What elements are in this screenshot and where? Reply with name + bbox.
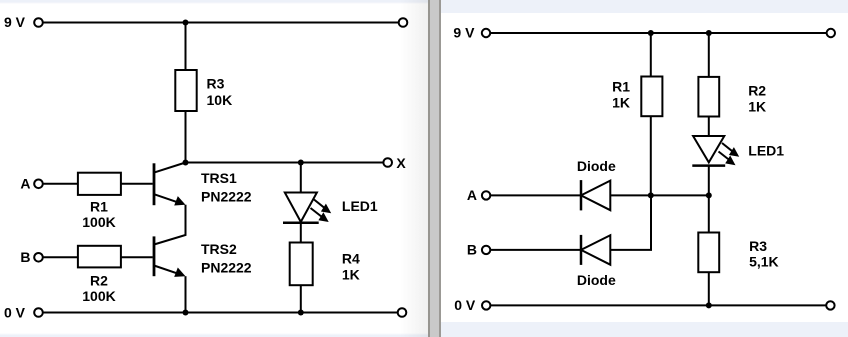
left page top blue strip — [0, 0, 428, 2]
svg-text:Diode: Diode — [577, 272, 616, 288]
svg-text:R3: R3 — [207, 75, 225, 91]
svg-text:R1: R1 — [90, 198, 108, 214]
0V rail right terminal — [398, 308, 407, 317]
resistor R2 body — [78, 246, 121, 268]
9V rail left terminal (right) — [482, 29, 490, 37]
wire R4 to 0V — [300, 285, 302, 312]
wire B to diode (right) — [490, 249, 581, 251]
svg-text:PN2222: PN2222 — [201, 189, 252, 205]
wire R3 bottom lead (right) — [708, 272, 710, 305]
9V rail left terminal — [34, 18, 43, 27]
diode B triangle — [581, 235, 610, 265]
svg-text:TRS2: TRS2 — [201, 241, 237, 257]
input B terminal (right) — [482, 246, 490, 254]
9V rail right terminal — [399, 18, 408, 27]
svg-text:LED1: LED1 — [748, 143, 784, 159]
junction dot collector node — [183, 160, 189, 166]
wire R2 to TRS2 base — [121, 256, 153, 258]
wire R3 bottom lead — [185, 111, 187, 163]
wire R2 to LED1 (right) — [708, 117, 710, 137]
wire LED1 cathode to A node (right) — [708, 166, 710, 196]
svg-text:1K: 1K — [342, 267, 360, 283]
LED LED1 cathode bar (right) — [692, 164, 725, 167]
wire diode B to vertical — [610, 195, 651, 250]
wire LED1 to R4 — [300, 223, 302, 243]
junction dot R4/0V — [298, 310, 304, 316]
svg-text:1K: 1K — [612, 95, 630, 111]
svg-text:R3: R3 — [749, 238, 767, 254]
svg-text:TRS1: TRS1 — [201, 170, 237, 186]
wire R1 bottom lead to A node — [650, 116, 652, 195]
svg-text:9 V: 9 V — [453, 25, 475, 41]
transistor TRS1 emitter stroke — [154, 194, 181, 203]
svg-text:0 V: 0 V — [4, 305, 26, 321]
LED LED1 light arrow 1 — [314, 200, 325, 209]
junction dot LED branch — [298, 160, 304, 166]
0V rail wire (right) — [490, 304, 826, 306]
0V rail left terminal (right) — [482, 301, 490, 309]
junction dot 9V/R3 — [183, 20, 189, 26]
wire A to R1 — [43, 183, 78, 185]
svg-text:LED1: LED1 — [342, 198, 378, 214]
diode A triangle — [581, 181, 610, 211]
svg-text:9 V: 9 V — [4, 14, 26, 30]
vertical scrollbar divider — [428, 0, 441, 337]
transistor TRS2 base bar — [153, 236, 156, 276]
svg-text:Diode: Diode — [577, 158, 616, 174]
wire diode A to node — [610, 194, 709, 196]
junction dot LED/R3 node (right) — [706, 192, 712, 198]
wire R3 top lead — [185, 23, 187, 71]
resistor R1 body (right) — [641, 77, 662, 117]
wire R2 top lead (right) — [708, 33, 710, 77]
svg-text:100K: 100K — [82, 214, 115, 230]
resistor R1 body — [78, 173, 121, 195]
wire A to diode (right) — [490, 194, 581, 196]
LED LED1 light arrow 2 (right) — [719, 152, 731, 161]
wire LED1 anode lead — [300, 163, 302, 193]
transistor TRS1 emitter arrowhead — [174, 196, 185, 205]
input B terminal — [34, 253, 43, 262]
transistor TRS1 collector stroke — [154, 163, 186, 173]
svg-text:1K: 1K — [748, 99, 766, 115]
LED LED1 light arrow 1 (right) — [722, 143, 733, 152]
junction dot TRS2 emitter/0V — [183, 310, 189, 316]
junction dot R3/0V (right) — [706, 302, 712, 308]
junction dot 9V/R2 (right) — [706, 30, 712, 36]
0V rail wire — [43, 312, 398, 314]
svg-text:A: A — [467, 187, 477, 203]
resistor R3 body (right) — [698, 233, 719, 273]
wire TRS2 emitter to 0V — [185, 276, 187, 312]
LED LED1 triangle — [285, 193, 317, 222]
LED LED1 triangle (right) — [693, 136, 724, 162]
svg-text:0 V: 0 V — [454, 297, 476, 313]
svg-text:10K: 10K — [207, 92, 233, 108]
wire R3 top lead (right) — [708, 195, 710, 232]
svg-text:100K: 100K — [82, 288, 115, 304]
svg-text:PN2222: PN2222 — [201, 259, 252, 275]
diode B cathode bar — [580, 235, 583, 265]
transistor TRS2 emitter arrowhead — [174, 268, 185, 277]
svg-text:B: B — [467, 242, 477, 258]
left page bottom blue strip — [0, 333, 428, 337]
diode A cathode bar — [580, 180, 583, 210]
svg-text:A: A — [20, 176, 30, 192]
junction dot 9V/R1 (right) — [648, 30, 654, 36]
svg-text:5,1K: 5,1K — [749, 254, 779, 270]
resistor R2 body (right) — [698, 77, 719, 117]
LED LED1 cathode bar — [283, 222, 319, 225]
svg-text:B: B — [20, 249, 30, 265]
right page blue background — [441, 0, 848, 337]
9V rail wire (right) — [490, 32, 826, 34]
0V rail right terminal (right) — [826, 301, 834, 309]
wire TRS1 emitter to TRS2 collector — [154, 205, 186, 245]
resistor R3 body — [175, 70, 196, 111]
transistor TRS2 emitter stroke — [154, 266, 181, 275]
svg-text:R1: R1 — [612, 79, 630, 95]
input A terminal — [34, 180, 43, 189]
terminal X — [383, 158, 392, 167]
9V rail right terminal (right) — [827, 29, 835, 37]
wire R1 to TRS1 base — [121, 183, 153, 185]
svg-text:X: X — [396, 155, 406, 171]
svg-text:R4: R4 — [342, 251, 360, 267]
LED LED1 light arrow 2 — [311, 208, 323, 217]
right page white card — [441, 13, 848, 322]
node X wire — [186, 162, 384, 164]
junction dot A node (right) — [648, 192, 654, 198]
svg-text:R2: R2 — [748, 82, 766, 98]
left page right-edge shadow — [400, 0, 428, 337]
transistor TRS1 base bar — [153, 163, 156, 205]
svg-text:R2: R2 — [90, 272, 108, 288]
input A terminal (right) — [482, 191, 490, 199]
wire R1 top lead (right) — [650, 33, 652, 77]
wire B to R2 — [43, 256, 78, 258]
9V rail wire — [43, 22, 399, 24]
0V rail left terminal — [34, 308, 43, 317]
resistor R4 body — [290, 243, 313, 286]
